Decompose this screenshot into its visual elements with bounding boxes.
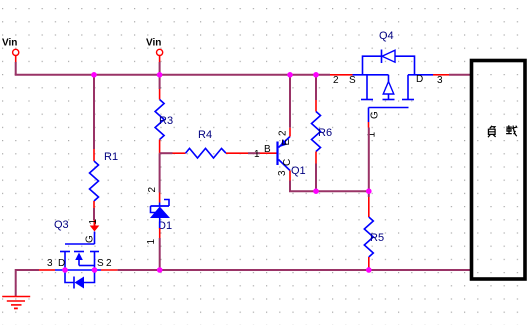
wire: D1 bottom to bottom rail bbox=[146, 218, 160, 270]
svg-text:Q3: Q3 bbox=[54, 219, 69, 231]
svg-text:R5: R5 bbox=[370, 232, 384, 244]
svg-text:1: 1 bbox=[254, 149, 260, 160]
svg-text:S: S bbox=[349, 75, 356, 86]
resistor R1 bbox=[90, 151, 119, 201]
wire: top rail bbox=[15, 74, 470, 76]
resistor R6 bbox=[312, 112, 333, 152]
node Vin (left terminal) bbox=[2, 38, 19, 63]
wire: R1 to Q3 gate with red arrow bbox=[90, 201, 100, 232]
svg-text:3: 3 bbox=[437, 75, 443, 86]
wire: R5 bottom to bottom rail bbox=[368, 257, 370, 270]
svg-text:1: 1 bbox=[88, 219, 99, 225]
wire: R4 to Q1 base bbox=[226, 144, 277, 160]
load label 载 bbox=[506, 125, 517, 136]
svg-text:2: 2 bbox=[333, 75, 339, 86]
wire: Q4 gate chain bbox=[367, 108, 381, 192]
svg-text:G: G bbox=[370, 111, 381, 119]
junction dots (all nets) bbox=[62, 72, 371, 273]
wire: R6 branch bbox=[315, 76, 317, 112]
svg-text:2: 2 bbox=[147, 187, 158, 193]
load box bbox=[472, 61, 526, 280]
svg-text:3: 3 bbox=[47, 258, 53, 269]
resistor R4 bbox=[186, 129, 227, 158]
svg-text:2: 2 bbox=[278, 130, 289, 136]
wire: Vin1 drop to top rail bbox=[15, 62, 17, 75]
wire: T junction to R4 bbox=[160, 152, 186, 154]
svg-text:R6: R6 bbox=[318, 127, 332, 139]
wire: bottom rail bbox=[16, 269, 470, 296]
wire: R5 branch bbox=[368, 191, 370, 217]
node Vin (second terminal) bbox=[146, 38, 163, 75]
wire: R3 bottom to T junction bbox=[159, 140, 161, 154]
body diode of Q4 bbox=[363, 50, 415, 75]
wire: Q4 drain red pin to load bbox=[433, 74, 449, 76]
transistor Q3 (N-MOSFET) bbox=[47, 219, 112, 271]
svg-text:3: 3 bbox=[277, 170, 288, 176]
zener diode D1 bbox=[150, 200, 172, 233]
svg-text:1: 1 bbox=[146, 239, 157, 245]
svg-text:R3: R3 bbox=[159, 115, 173, 127]
svg-text:Q4: Q4 bbox=[379, 30, 394, 42]
svg-text:D: D bbox=[416, 74, 423, 85]
svg-text:B: B bbox=[264, 144, 271, 155]
svg-text:E: E bbox=[281, 139, 292, 146]
svg-text:Vin: Vin bbox=[2, 38, 17, 49]
svg-text:Q1: Q1 bbox=[291, 165, 306, 177]
ground bbox=[2, 297, 30, 309]
wire: Q1 collector down bbox=[290, 171, 369, 192]
svg-text:R1: R1 bbox=[104, 151, 118, 163]
svg-text:2: 2 bbox=[106, 258, 112, 269]
transistor Q1 (PNP) bbox=[276, 130, 305, 177]
svg-text:S: S bbox=[97, 258, 104, 269]
transistor Q4 (P-MOSFET) bbox=[353, 30, 444, 108]
svg-text:Vin: Vin bbox=[146, 38, 161, 49]
resistor R5 bbox=[364, 217, 384, 257]
svg-text:R4: R4 bbox=[198, 129, 212, 141]
wire: R6 bottom bbox=[315, 152, 317, 192]
wire: R1 branch upper bbox=[93, 76, 95, 161]
wire: Q1 emitter to top rail bbox=[289, 76, 291, 137]
svg-text:C: C bbox=[282, 159, 293, 166]
body diode of Q3 bbox=[65, 270, 95, 289]
wire: top rail red pin into Q4 source bbox=[330, 75, 356, 86]
wire: R3 branch upper bbox=[159, 76, 161, 100]
load label 负 bbox=[488, 126, 496, 137]
resistor R3 bbox=[155, 100, 173, 140]
wire: T junction down to D1 bbox=[147, 153, 160, 206]
